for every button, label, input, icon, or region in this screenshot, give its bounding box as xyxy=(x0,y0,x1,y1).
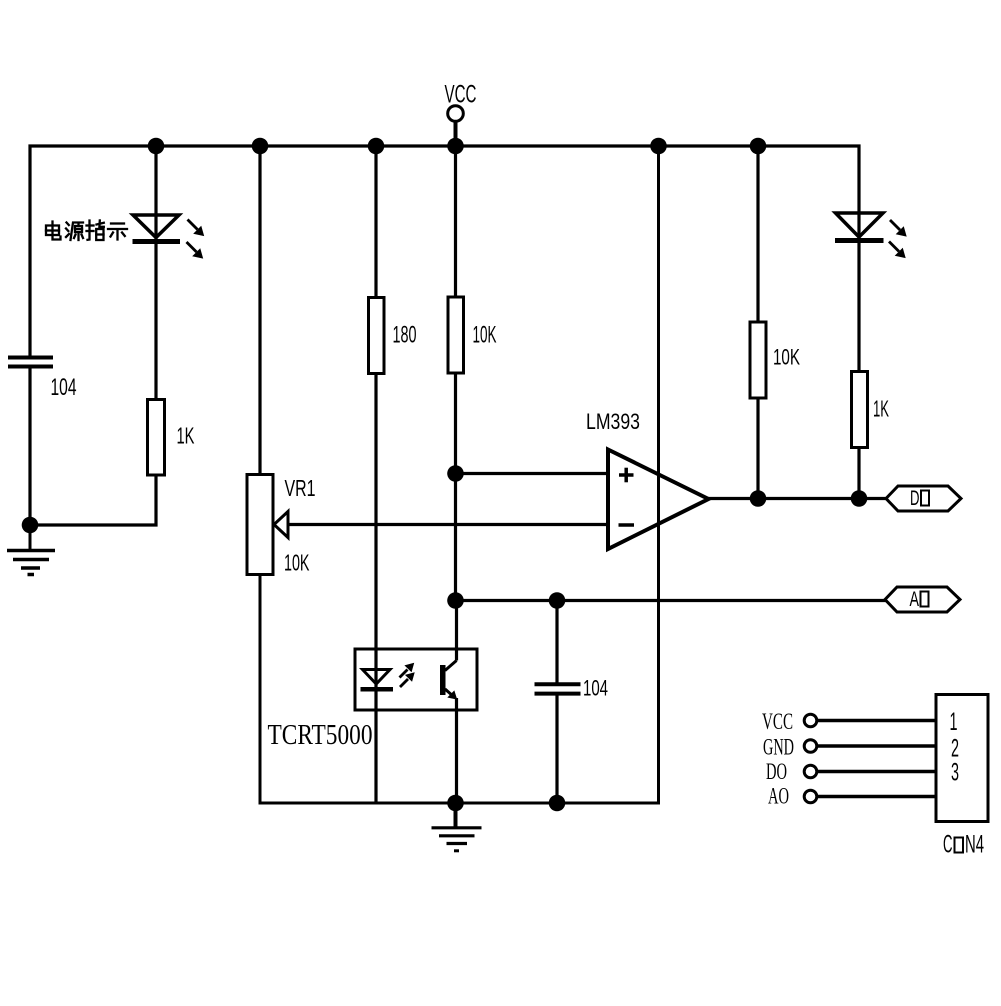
wire top VCC rail with left and right drops xyxy=(30,146,859,499)
LED D2 light arrow 2 xyxy=(889,242,905,258)
svg-text:TCRT5000: TCRT5000 xyxy=(268,719,373,751)
wire R5 10K right column xyxy=(756,146,759,499)
svg-text:1K: 1K xyxy=(177,423,195,449)
junction node xyxy=(549,795,566,812)
connector pin 4 wire xyxy=(816,795,936,799)
op-amp U1 plus input sign xyxy=(619,468,634,483)
wire noninverting input xyxy=(456,472,610,475)
resistor R3 180 xyxy=(369,298,385,374)
junction node xyxy=(750,490,767,507)
wire AO net xyxy=(456,599,887,602)
connector pin 2 wire xyxy=(816,744,936,748)
connector pin 1 terminal circle xyxy=(804,714,817,727)
LED D1 light arrow 2 xyxy=(187,242,203,258)
svg-text:A: A xyxy=(910,588,920,611)
svg-text:D: D xyxy=(910,487,920,510)
svg-text:N4: N4 xyxy=(965,831,984,859)
TCRT5000 emitter LED xyxy=(363,670,391,685)
wire left column lower (C1 bottom to GND node) xyxy=(28,369,31,527)
wire LED1 / R2 column xyxy=(154,146,157,475)
node flag AO xyxy=(885,587,960,612)
connector pin 3 terminal circle xyxy=(804,765,817,778)
svg-text:10K: 10K xyxy=(473,322,497,349)
wire R4 10K column / + input node / collector node xyxy=(454,146,457,601)
svg-text:180: 180 xyxy=(393,322,417,349)
junction node xyxy=(148,138,165,155)
junction node xyxy=(447,138,464,155)
TCRT5000 light arrow 2 xyxy=(400,673,414,687)
junction node xyxy=(252,138,269,155)
junction node xyxy=(549,592,566,609)
wire VR1 column top xyxy=(258,146,261,476)
resistor R4 10K xyxy=(448,297,464,373)
wire GND node to R2 bottom xyxy=(29,475,157,525)
svg-text:LM393: LM393 xyxy=(586,409,640,434)
resistor R6 1K right xyxy=(852,372,868,448)
connector pin 2 terminal circle xyxy=(804,740,817,753)
wire inverting input from VR1 wiper xyxy=(288,523,609,526)
LED D2 DO indicator symbol xyxy=(836,213,884,237)
junction node xyxy=(22,517,39,534)
junction node xyxy=(447,795,464,812)
ground symbol center xyxy=(432,828,482,851)
junction node xyxy=(650,138,667,155)
svg-text:1: 1 xyxy=(950,708,958,736)
wire VCC drop at x657 and bottom ground rail xyxy=(260,146,659,803)
optocoupler U2 TCRT5000 body xyxy=(355,649,477,710)
svg-text:1K: 1K xyxy=(873,396,889,422)
connector pin 1 wire xyxy=(816,719,936,723)
potentiometer VR1 wiper arrow xyxy=(274,512,288,538)
junction node xyxy=(368,138,385,155)
op-amp U1 LM393 xyxy=(608,450,709,550)
svg-text:10K: 10K xyxy=(284,550,310,576)
connector pin 3 wire xyxy=(816,770,936,774)
wire transistor emitter vertical to rail xyxy=(455,698,458,805)
svg-text:VCC: VCC xyxy=(762,709,793,734)
potentiometer VR1 body xyxy=(247,475,273,575)
wire center ground stem xyxy=(454,803,458,828)
resistor R2 1K xyxy=(148,400,165,476)
LED D2 light arrow 1 xyxy=(890,220,906,236)
svg-text:AO: AO xyxy=(768,784,789,809)
capacitor C2 104 plates xyxy=(535,684,581,693)
ground symbol left xyxy=(7,527,55,575)
junction node xyxy=(851,490,868,507)
svg-text:C: C xyxy=(943,831,953,859)
wire DO net from op-amp output xyxy=(708,497,887,500)
svg-text:VR1: VR1 xyxy=(285,475,316,501)
TCRT5000 light arrow 1 xyxy=(400,664,414,678)
svg-text:GND: GND xyxy=(763,735,794,760)
junction node xyxy=(447,465,464,482)
wire C2 column upper xyxy=(555,601,558,683)
svg-text:VCC: VCC xyxy=(445,81,477,109)
LED D1 light arrow 1 xyxy=(188,220,204,236)
resistor R5 10K right xyxy=(750,322,766,398)
svg-text:104: 104 xyxy=(51,374,77,401)
op-amp U1 minus input sign xyxy=(619,523,635,527)
LED D1 power indicator symbol xyxy=(133,215,179,238)
junction node xyxy=(750,138,767,155)
svg-text:10K: 10K xyxy=(773,345,800,370)
VCC power terminal xyxy=(448,106,464,122)
node flag DO xyxy=(886,486,961,511)
wire transistor collector vertical xyxy=(455,601,458,661)
svg-text:104: 104 xyxy=(583,676,608,701)
TCRT5000 phototransistor Q1 xyxy=(441,661,457,700)
connector pin 4 terminal circle xyxy=(804,790,817,803)
capacitor C1 104 plates xyxy=(8,358,53,367)
wire C2 column lower xyxy=(555,696,558,805)
junction node xyxy=(447,592,464,609)
wire VCC stem xyxy=(454,120,458,146)
connector J1 CON4 body xyxy=(936,695,988,822)
label power indicator Chinese text dian-yuan-zhi-shi xyxy=(46,221,127,241)
svg-text:3: 3 xyxy=(951,759,959,787)
wire R3 180 column through TCRT LED xyxy=(374,146,377,805)
svg-text:DO: DO xyxy=(766,759,787,784)
